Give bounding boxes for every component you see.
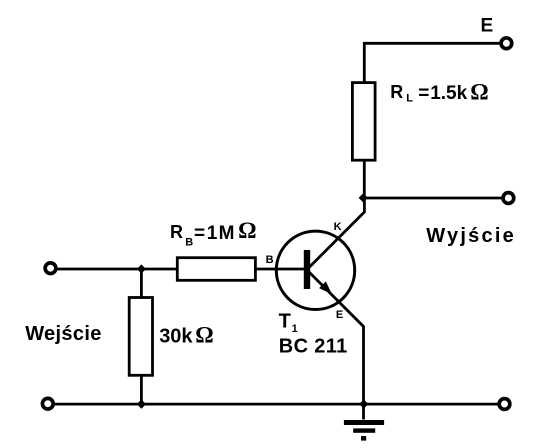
svg-text:B: B [185,236,193,248]
svg-text:B: B [266,254,274,266]
svg-text:Ω: Ω [238,218,256,243]
svg-text:Ω: Ω [470,80,488,105]
svg-text:1: 1 [292,323,298,335]
svg-text:Wyjście: Wyjście [426,225,516,247]
svg-text:R: R [390,82,403,102]
svg-text:K: K [334,221,342,233]
svg-text:1.5k: 1.5k [430,83,467,104]
svg-text:R: R [170,222,183,242]
svg-text:=: = [418,83,429,104]
svg-text:BC 211: BC 211 [279,335,348,357]
svg-text:L: L [406,93,413,105]
svg-text:Wejście: Wejście [25,323,102,345]
svg-text:E: E [336,309,343,321]
svg-text:T: T [279,311,291,333]
svg-text:30k: 30k [159,325,193,347]
svg-text:E: E [481,16,494,37]
svg-text:1M: 1M [207,223,236,244]
svg-text:Ω: Ω [195,322,213,347]
svg-text:=: = [194,223,205,244]
